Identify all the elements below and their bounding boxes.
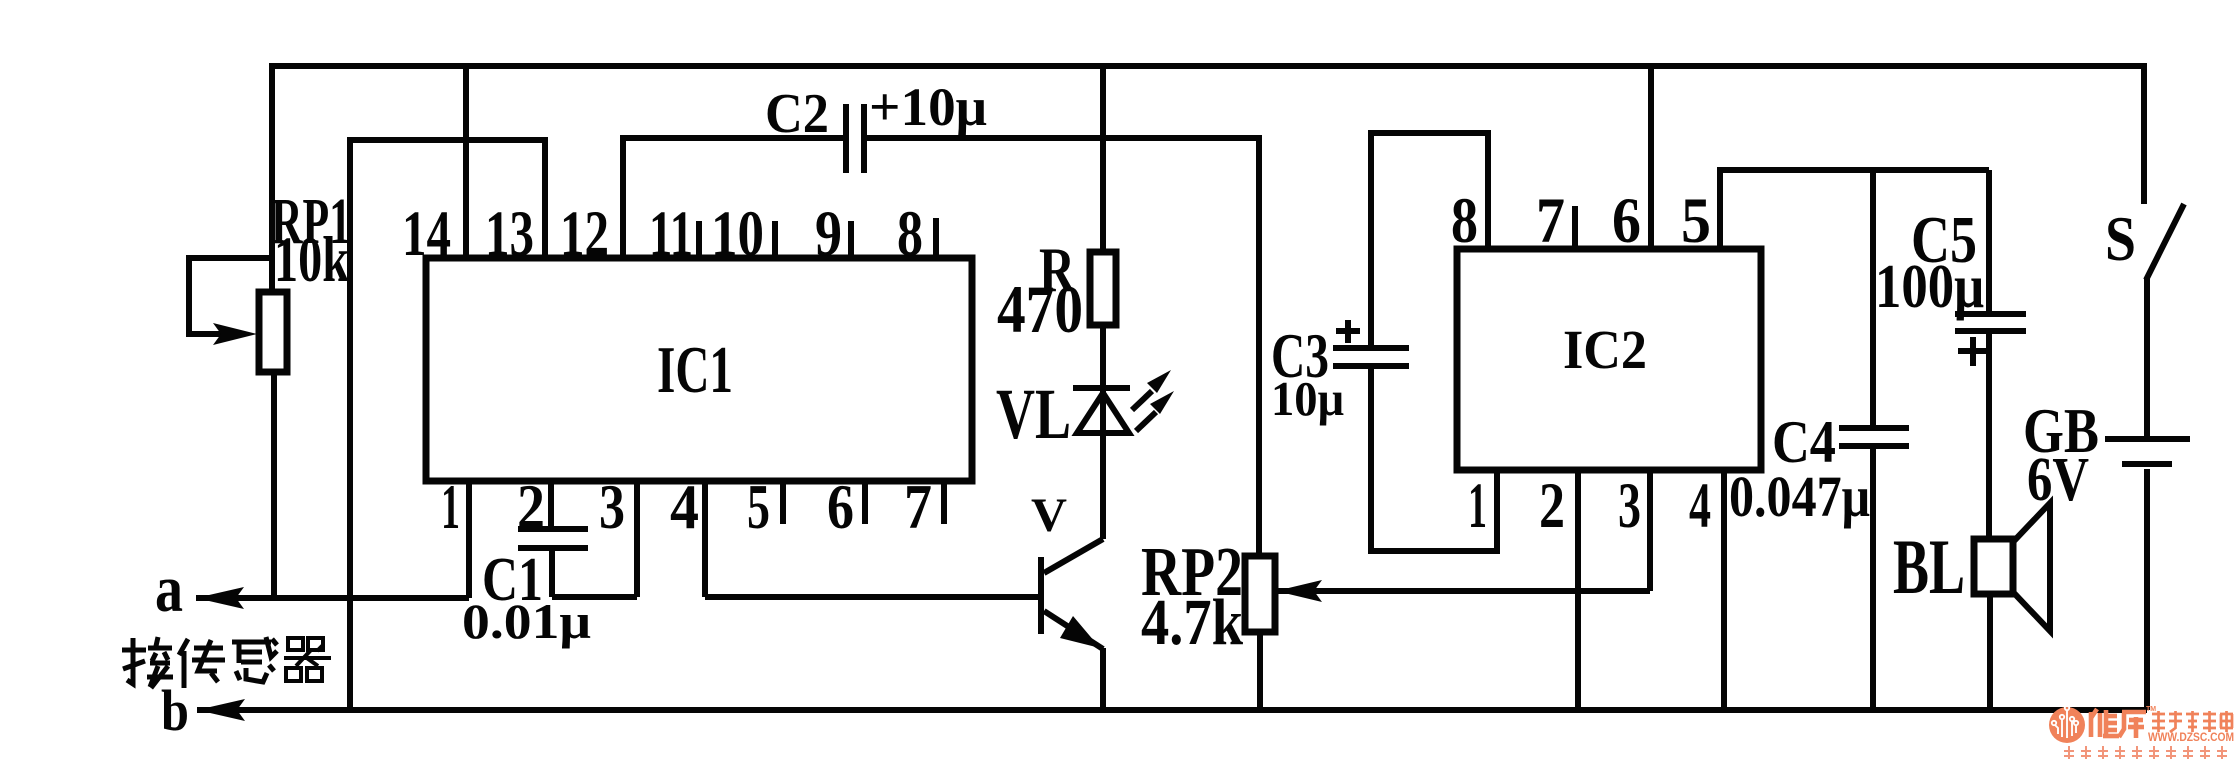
svg-text:IC1: IC1 bbox=[657, 333, 733, 407]
svg-text:WWW.DZSC.COM: WWW.DZSC.COM bbox=[2148, 732, 2234, 744]
svg-text:6: 6 bbox=[1612, 185, 1641, 257]
svg-text:1: 1 bbox=[1468, 470, 1487, 542]
svg-text:2: 2 bbox=[517, 471, 545, 542]
svg-text:7: 7 bbox=[904, 471, 932, 542]
svg-text:4.7k: 4.7k bbox=[1141, 586, 1243, 659]
svg-text:5: 5 bbox=[1681, 185, 1711, 257]
svg-text:8: 8 bbox=[1451, 185, 1478, 257]
svg-text:6V: 6V bbox=[2027, 446, 2089, 514]
svg-text:12: 12 bbox=[560, 198, 609, 270]
svg-text:10k: 10k bbox=[274, 224, 350, 296]
svg-text:8: 8 bbox=[897, 198, 923, 270]
svg-text:IC2: IC2 bbox=[1563, 319, 1647, 380]
svg-text:3: 3 bbox=[1618, 470, 1641, 542]
svg-text:0.047μ: 0.047μ bbox=[1729, 464, 1870, 529]
svg-text:+10μ: +10μ bbox=[869, 77, 987, 137]
svg-text:VL: VL bbox=[996, 374, 1071, 454]
svg-text:14: 14 bbox=[402, 198, 451, 270]
svg-text:2: 2 bbox=[1539, 470, 1565, 542]
svg-text:S: S bbox=[2105, 204, 2136, 274]
svg-text:11: 11 bbox=[649, 198, 693, 270]
svg-text:9: 9 bbox=[815, 198, 842, 270]
svg-text:470: 470 bbox=[997, 271, 1083, 347]
svg-text:10μ: 10μ bbox=[1271, 371, 1344, 426]
svg-text:100μ: 100μ bbox=[1875, 253, 1984, 321]
svg-text:10: 10 bbox=[711, 198, 764, 270]
svg-text:TM: TM bbox=[2146, 706, 2156, 713]
svg-text:3: 3 bbox=[599, 471, 625, 542]
svg-text:V: V bbox=[1031, 489, 1067, 542]
svg-text:4: 4 bbox=[1689, 470, 1711, 542]
svg-text:1: 1 bbox=[441, 471, 460, 542]
svg-text:C2: C2 bbox=[765, 83, 829, 145]
svg-text:6: 6 bbox=[827, 471, 854, 542]
svg-text:a: a bbox=[155, 552, 183, 626]
svg-text:13: 13 bbox=[485, 198, 534, 270]
svg-text:4: 4 bbox=[670, 471, 699, 542]
svg-text:BL: BL bbox=[1893, 523, 1965, 610]
svg-text:5: 5 bbox=[747, 471, 770, 542]
svg-text:0.01μ: 0.01μ bbox=[462, 593, 591, 649]
svg-text:7: 7 bbox=[1536, 185, 1565, 257]
